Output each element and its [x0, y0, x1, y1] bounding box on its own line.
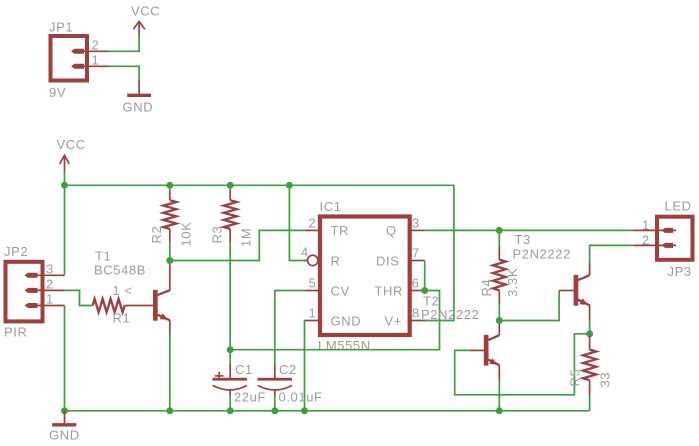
svg-text:DIS: DIS	[376, 253, 399, 268]
svg-text:VCC: VCC	[131, 4, 160, 19]
wire T2 emitter to ground rail	[498, 380, 500, 411]
svg-text:PIR: PIR	[4, 325, 27, 340]
svg-text:T1: T1	[95, 249, 111, 264]
node Q net / R4	[496, 227, 503, 234]
connector JP1	[49, 20, 87, 101]
svg-text:C2: C2	[279, 362, 297, 377]
node R4 / T2 collector / T3 base	[496, 317, 503, 324]
svg-text:1 <: 1 <	[113, 283, 133, 298]
svg-text:P2N2222: P2N2222	[421, 307, 479, 322]
wire JP2 pin3 to VCC rail	[64, 185, 66, 275]
pin 2 of JP1	[71, 37, 109, 54]
svg-text:JP3: JP3	[668, 264, 692, 279]
node rail junction R2	[166, 182, 173, 189]
svg-text:LED: LED	[665, 199, 692, 214]
wire T2 base sense loop to R5 top	[455, 334, 590, 395]
wire T3 collector to JP3 pin2	[590, 245, 634, 263]
svg-text:R4: R4	[479, 279, 494, 297]
wire VCC drop to IC pin8	[424, 185, 454, 320]
wire IC GND pin to ground rail	[304, 321, 306, 411]
svg-text:GND: GND	[331, 313, 362, 328]
node rail junction reset drop	[286, 182, 293, 189]
svg-text:CV: CV	[331, 283, 350, 298]
svg-text:IC1: IC1	[320, 199, 342, 214]
node R3/C1/THR junction	[227, 346, 234, 353]
svg-text:C1: C1	[235, 362, 253, 377]
svg-text:THR: THR	[375, 283, 404, 298]
wire R1 to T1 base	[125, 305, 154, 307]
svg-text:3: 3	[46, 261, 54, 276]
node T3 emitter / R5 / T2 base	[586, 330, 593, 337]
wire CV to C2	[275, 291, 305, 365]
resistor R4 3.3K	[479, 230, 520, 320]
svg-text:2: 2	[92, 37, 100, 52]
connector JP3 LED	[657, 199, 693, 280]
svg-text:2: 2	[309, 215, 317, 230]
wire DIS to THR	[424, 261, 426, 291]
pin 1 GND of IC1	[305, 306, 361, 329]
svg-text:7: 7	[412, 246, 420, 261]
svg-text:R3: R3	[210, 226, 225, 244]
svg-text:R: R	[331, 253, 341, 268]
pin 5 CV of IC1	[305, 276, 350, 299]
svg-text:0.01uF: 0.01uF	[279, 390, 323, 405]
pin 2 of JP2	[25, 276, 65, 293]
svg-text:2: 2	[46, 276, 54, 291]
svg-text:4: 4	[301, 245, 309, 260]
wire JP1 pin2 to VCC	[109, 34, 139, 52]
wire reset net rail to pin4 bubble	[289, 185, 304, 260]
connector JP2	[4, 244, 43, 340]
wire Q output net to LED	[425, 229, 634, 231]
pin 3 of JP2	[25, 261, 65, 278]
transistor T2 P2N2222	[421, 294, 499, 381]
resistor R1 value 1<	[93, 283, 133, 326]
svg-text:1: 1	[309, 306, 317, 321]
wire T1 emitter to ground rail	[169, 335, 171, 411]
svg-text:GND: GND	[49, 428, 80, 443]
svg-text:22uF: 22uF	[234, 390, 266, 405]
svg-text:3.3K: 3.3K	[505, 268, 520, 297]
svg-text:LM555N: LM555N	[318, 338, 371, 353]
resistor R3 1M	[210, 185, 254, 247]
capacitor C2 0.01uF	[258, 362, 323, 411]
svg-text:GND: GND	[123, 100, 154, 115]
wire TR net to IC pin2	[170, 230, 305, 260]
wire ground rail bottom	[65, 410, 590, 412]
node rail T2 emitter	[496, 407, 503, 414]
pin 4 R of IC1 inverted	[301, 245, 341, 269]
svg-text:1: 1	[46, 292, 54, 307]
supply symbol VCC top	[131, 4, 160, 36]
svg-text:1: 1	[92, 52, 100, 67]
wire JP2 pin1 to ground rail	[64, 306, 66, 411]
svg-text:R5: R5	[568, 369, 583, 387]
wire T3 emitter to R5 node	[589, 320, 591, 334]
svg-text:JP1: JP1	[49, 20, 73, 35]
svg-text:10K: 10K	[179, 222, 194, 247]
transistor T3 P2N2222	[513, 232, 590, 321]
node R2 / T1 collector / TR net	[166, 257, 173, 264]
pin 1 of JP2	[25, 292, 65, 309]
svg-text:V+: V+	[385, 313, 402, 328]
pin 2 TR of IC1	[305, 215, 349, 238]
wire VCC rail	[65, 172, 454, 186]
svg-text:2: 2	[642, 232, 650, 247]
pin 6 THR of IC1	[375, 276, 425, 299]
capacitor C1 22uF	[213, 350, 267, 411]
wire JP2 pin2 to R1	[65, 290, 93, 305]
svg-text:3: 3	[412, 215, 420, 230]
svg-text:BC548B: BC548B	[94, 263, 146, 278]
svg-text:VCC: VCC	[57, 137, 86, 152]
wire THR net to C1	[230, 291, 439, 350]
wire R3 bottom to C1/THR node	[229, 243, 231, 350]
svg-text:8: 8	[412, 306, 420, 321]
svg-text:T3: T3	[515, 232, 531, 247]
svg-text:R2: R2	[149, 226, 164, 244]
svg-text:TR: TR	[331, 223, 350, 238]
svg-text:P2N2222: P2N2222	[513, 247, 571, 262]
node rail T1 emitter	[166, 407, 173, 414]
svg-text:9V: 9V	[49, 85, 66, 100]
resistor R5 33	[568, 336, 613, 411]
wire JP1 pin1 to GND	[109, 66, 139, 81]
node rail IC GND	[301, 407, 308, 414]
resistor R2 10K	[149, 185, 194, 260]
svg-text:5: 5	[309, 276, 317, 291]
node DIS/THR junction	[421, 287, 428, 294]
node rail C2	[271, 407, 278, 414]
IC U1 box IC1 LM555N	[318, 199, 410, 353]
node rail JP2 pin1	[61, 407, 68, 414]
supply symbol VCC left	[57, 137, 86, 173]
svg-text:JP2: JP2	[4, 244, 28, 259]
pin 3 Q of IC1	[386, 215, 425, 238]
svg-text:1M: 1M	[239, 228, 254, 247]
pin 8 V+ of IC1	[385, 306, 425, 329]
pin 2 of JP3	[634, 232, 676, 248]
svg-text:1: 1	[642, 217, 650, 232]
svg-text:33: 33	[598, 372, 613, 388]
node rail VCC junction	[61, 182, 68, 189]
ground symbol GND bottom	[49, 411, 80, 443]
node rail C1	[227, 407, 234, 414]
svg-text:R1: R1	[113, 311, 131, 326]
wire R4 node to T3 base	[499, 291, 559, 321]
pin 1 of JP1	[71, 52, 109, 69]
ground symbol GND top	[123, 81, 154, 115]
svg-text:Q: Q	[386, 223, 397, 238]
svg-text:6: 6	[412, 276, 420, 291]
transistor T1 BC548B	[94, 249, 170, 336]
node rail junction R3	[227, 182, 234, 189]
pin 7 DIS of IC1	[376, 246, 425, 269]
pin 1 of JP3	[634, 217, 676, 233]
